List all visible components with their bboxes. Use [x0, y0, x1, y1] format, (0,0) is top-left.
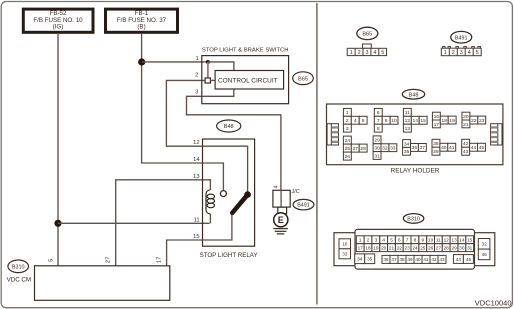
junction dot on FB-52 line [54, 220, 61, 227]
wire FB-1 down [142, 34, 203, 163]
svg-text:J/C: J/C [292, 189, 300, 195]
svg-text:26: 26 [428, 245, 434, 250]
pin 1 [195, 56, 198, 62]
svg-text:19: 19 [373, 245, 379, 250]
svg-text:39: 39 [407, 257, 413, 262]
svg-text:5: 5 [381, 50, 384, 56]
pin 2 [195, 73, 198, 79]
svg-text:B48: B48 [409, 92, 419, 98]
connector B65 [293, 72, 314, 85]
svg-text:40: 40 [415, 257, 421, 262]
svg-text:45: 45 [466, 257, 472, 262]
svg-text:43: 43 [463, 149, 469, 155]
svg-text:(IG): (IG) [53, 24, 64, 31]
svg-text:11: 11 [405, 110, 410, 116]
svg-text:18: 18 [365, 245, 371, 250]
svg-text:1: 1 [346, 110, 349, 116]
svg-text:29: 29 [374, 138, 380, 144]
svg-text:9: 9 [385, 118, 388, 124]
relay coil L1 [206, 190, 215, 214]
svg-text:(B): (B) [137, 24, 145, 31]
VDC control module [7, 266, 170, 301]
svg-text:37: 37 [420, 145, 426, 151]
svg-text:5: 5 [390, 238, 393, 243]
relay holder right lock [491, 124, 502, 145]
node switch internal junction [206, 60, 210, 64]
svg-text:13: 13 [451, 238, 457, 243]
svg-text:4: 4 [382, 238, 385, 243]
connector B491 pinout [441, 31, 481, 56]
svg-text:35: 35 [404, 149, 410, 155]
svg-text:STOP LIGHT & BRAKE SWITCH: STOP LIGHT & BRAKE SWITCH [202, 48, 289, 54]
svg-text:30: 30 [459, 245, 465, 250]
svg-text:38: 38 [433, 141, 439, 147]
wire relay pin 13 to VDC CM pin 27 [116, 180, 203, 266]
svg-text:14: 14 [459, 238, 465, 243]
svg-text:17: 17 [358, 245, 364, 250]
wire relay pin12 internal [203, 146, 248, 194]
svg-text:1: 1 [350, 50, 353, 56]
joint connector J/C [273, 189, 300, 207]
svg-text:B310: B310 [407, 217, 420, 223]
svg-text:12: 12 [405, 118, 411, 124]
svg-text:15: 15 [193, 234, 199, 240]
svg-text:VDC CM: VDC CM [7, 276, 31, 283]
svg-text:15: 15 [467, 238, 473, 243]
B310 cells 36-43 [382, 255, 446, 263]
relay holder cells 16-19 [432, 112, 456, 128]
wire FB-52 to VDC CM pin 5 [57, 34, 59, 266]
relay holder cells 11-15 [403, 108, 427, 132]
svg-text:2: 2 [452, 50, 455, 56]
connector B491 [293, 199, 314, 209]
svg-text:4: 4 [354, 118, 357, 124]
connector B65 pinout [347, 27, 386, 56]
pin 27 [106, 257, 112, 263]
B310 cells 16 33 [339, 239, 351, 259]
svg-text:2: 2 [195, 73, 198, 79]
svg-text:10: 10 [391, 118, 397, 124]
connector B310 pinout [334, 214, 495, 270]
svg-text:42: 42 [463, 141, 469, 147]
svg-text:14: 14 [193, 157, 200, 163]
svg-text:32: 32 [481, 242, 487, 247]
svg-text:18: 18 [441, 118, 447, 124]
svg-text:24: 24 [412, 245, 418, 250]
svg-text:23: 23 [479, 118, 485, 124]
svg-text:3: 3 [346, 126, 349, 132]
pin 17 [157, 257, 163, 263]
svg-text:46: 46 [481, 252, 487, 257]
svg-text:2: 2 [367, 238, 370, 243]
svg-text:B310: B310 [12, 264, 25, 270]
relay holder cells 1-5 [343, 108, 367, 132]
relay armature [232, 191, 251, 213]
svg-text:45: 45 [479, 145, 485, 151]
wire relay pin13 internal [203, 180, 211, 190]
stop light relay K1 [200, 139, 258, 259]
svg-text:7: 7 [377, 118, 380, 124]
relay holder cells 42-45 [462, 139, 486, 155]
stop light & brake switch U-SW [202, 48, 289, 104]
B310 cells 17-31 [356, 244, 473, 252]
svg-text:16: 16 [342, 242, 348, 247]
svg-text:14: 14 [412, 118, 418, 124]
svg-text:24: 24 [345, 138, 351, 144]
svg-text:30: 30 [374, 146, 380, 152]
svg-text:5: 5 [362, 118, 365, 124]
svg-text:11: 11 [436, 238, 441, 243]
wire switch pin 2 to relay pin 12 [166, 80, 205, 146]
svg-text:13: 13 [193, 174, 199, 180]
wire pin1 to control circuit [208, 62, 234, 71]
svg-text:32: 32 [382, 146, 388, 152]
fuse FB-1 [106, 9, 178, 32]
svg-text:3: 3 [460, 50, 463, 56]
svg-text:39: 39 [433, 149, 439, 155]
svg-text:B65: B65 [298, 76, 308, 82]
relay B48 label [217, 120, 241, 132]
panel divider [316, 3, 318, 305]
svg-text:37: 37 [391, 257, 397, 262]
svg-text:29: 29 [451, 245, 457, 250]
relay holder cells 34-37 [403, 140, 427, 156]
svg-text:E: E [278, 215, 284, 225]
svg-text:41: 41 [449, 145, 455, 151]
svg-text:3: 3 [366, 50, 369, 56]
svg-text:25: 25 [420, 245, 426, 250]
B310 cells 32 46 [478, 239, 490, 260]
pin 14 [193, 157, 200, 163]
wire contact to control circuit [210, 79, 215, 81]
svg-text:22: 22 [397, 245, 403, 250]
wire relay coil bottom to pin 11 [209, 214, 211, 223]
svg-text:36: 36 [412, 145, 418, 151]
pin 4 label [273, 185, 279, 188]
wire relay pin15 internal [203, 214, 232, 240]
wire junction to relay pin 11 [58, 222, 210, 224]
svg-text:44: 44 [471, 145, 477, 151]
fuse FB-52 [23, 9, 93, 32]
relay holder B48 pinout [327, 89, 503, 174]
wire switch plunger [207, 62, 209, 78]
svg-text:13: 13 [405, 126, 411, 132]
svg-text:17: 17 [434, 122, 440, 128]
wire junction to switch pin 1 [142, 61, 208, 63]
wire relay pin 15 to VDC CM pin 17 [167, 240, 203, 266]
svg-text:22: 22 [471, 118, 477, 124]
svg-text:21: 21 [463, 122, 469, 128]
svg-text:8: 8 [377, 126, 380, 132]
B310 cells 1-15 [356, 236, 473, 244]
relay holder cells 24-28 [343, 136, 367, 160]
svg-text:31: 31 [374, 153, 380, 159]
pin 5 [48, 259, 54, 262]
svg-text:8: 8 [414, 238, 417, 243]
wire relay pin14 internal [203, 163, 224, 190]
svg-text:19: 19 [449, 118, 455, 124]
svg-text:B65: B65 [362, 32, 372, 38]
svg-text:40: 40 [441, 145, 447, 151]
svg-text:1: 1 [359, 238, 362, 243]
svg-text:15: 15 [420, 118, 426, 124]
svg-text:34: 34 [357, 257, 363, 262]
relay holder cells 29-33 [373, 136, 397, 160]
ground E [273, 207, 288, 234]
svg-text:RELAY HOLDER: RELAY HOLDER [391, 167, 440, 174]
svg-text:23: 23 [404, 245, 410, 250]
relay holder cells 38-41 [432, 139, 456, 155]
svg-text:35: 35 [367, 257, 373, 262]
svg-text:42: 42 [431, 257, 437, 262]
pin 15 [193, 234, 199, 240]
svg-text:5: 5 [48, 259, 54, 262]
svg-text:3: 3 [375, 238, 378, 243]
svg-text:31: 31 [467, 245, 473, 250]
relay holder cells 20-23 [462, 112, 486, 128]
relay holder left lock [327, 124, 338, 145]
switch contact square [205, 78, 210, 83]
svg-text:2: 2 [346, 118, 349, 124]
svg-text:B48: B48 [224, 124, 234, 130]
svg-text:9: 9 [421, 238, 424, 243]
svg-text:2: 2 [358, 50, 361, 56]
pin 13 [193, 174, 199, 180]
svg-text:33: 33 [390, 146, 396, 152]
svg-text:1: 1 [195, 56, 198, 62]
B310 cells 34 35 [355, 254, 375, 264]
relay fixed contact [220, 191, 226, 197]
pin 3 [195, 90, 198, 96]
svg-text:CONTROL CIRCUIT: CONTROL CIRCUIT [218, 77, 278, 84]
svg-text:6: 6 [398, 238, 401, 243]
connector B310 label [8, 260, 29, 273]
svg-text:27: 27 [436, 245, 442, 250]
svg-text:44: 44 [456, 257, 462, 262]
svg-text:1: 1 [444, 50, 447, 56]
svg-text:12: 12 [193, 140, 199, 146]
svg-text:B491: B491 [455, 35, 468, 41]
svg-text:10: 10 [428, 238, 434, 243]
svg-text:26: 26 [345, 154, 351, 160]
svg-text:41: 41 [423, 257, 429, 262]
svg-text:20: 20 [463, 114, 469, 120]
svg-text:4: 4 [273, 185, 279, 188]
svg-text:7: 7 [406, 238, 409, 243]
svg-text:27: 27 [106, 257, 112, 263]
svg-text:VDC10040: VDC10040 [475, 298, 512, 307]
svg-text:6: 6 [377, 110, 380, 116]
svg-text:20: 20 [381, 245, 387, 250]
wire switch pin 3 to joint connector [187, 89, 281, 190]
pin 11 [194, 217, 200, 223]
relay holder cells 6-10 [374, 108, 398, 132]
control circuit U1 [215, 71, 284, 90]
svg-text:43: 43 [439, 257, 445, 262]
svg-text:38: 38 [399, 257, 405, 262]
svg-text:28: 28 [444, 245, 450, 250]
pin 12 [193, 140, 199, 146]
svg-text:17: 17 [157, 257, 163, 263]
svg-text:36: 36 [383, 257, 389, 262]
figure number VDC10040 [475, 298, 512, 307]
svg-text:28: 28 [360, 146, 366, 152]
svg-text:4: 4 [468, 50, 471, 56]
svg-text:34: 34 [404, 141, 410, 147]
svg-text:B491: B491 [297, 203, 310, 209]
svg-text:5: 5 [476, 50, 479, 56]
svg-text:12: 12 [444, 238, 450, 243]
svg-text:33: 33 [342, 252, 348, 257]
svg-text:25: 25 [345, 146, 351, 152]
svg-text:4: 4 [373, 50, 376, 56]
junction dot on FB-1 line [138, 58, 145, 65]
svg-text:27: 27 [352, 146, 358, 152]
svg-text:21: 21 [389, 245, 395, 250]
svg-text:3: 3 [195, 90, 198, 96]
svg-text:16: 16 [434, 114, 440, 120]
svg-text:STOP LIGHT RELAY: STOP LIGHT RELAY [200, 252, 258, 259]
B310 cells 44 45 [453, 255, 473, 264]
svg-text:11: 11 [194, 217, 200, 223]
